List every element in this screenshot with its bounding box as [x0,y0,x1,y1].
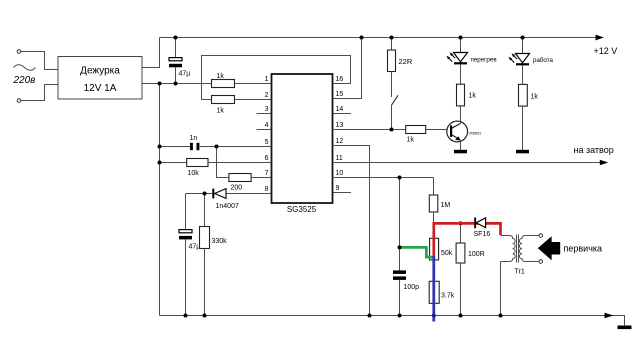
svg-text:220в: 220в [13,75,36,86]
node: 100p ground junction [398,314,402,318]
wire: emitter to ground [460,140,462,150]
svg-text:6: 6 [265,155,269,162]
svg-text:перегрев: перегрев [471,57,498,64]
wire: red node to transformer (black stub) [501,235,510,237]
resistor R 1k (pin 1) [212,80,235,88]
svg-text:200: 200 [231,185,243,192]
svg-text:3: 3 [265,106,269,113]
svg-text:7: 7 [265,170,269,177]
wire: pin 8 line [226,193,272,195]
wire: pin 3 stub [257,113,272,115]
diode D SF16 [474,218,476,229]
wire: primary bottom to ground rail [500,262,502,316]
wire: 1k to pin 2 [235,99,272,101]
transformer Tr1 secondary winding [519,236,538,262]
svg-text:первичка: первичка [564,244,603,254]
svg-text:1n4007: 1n4007 [216,203,239,210]
svg-text:13: 13 [336,122,344,129]
svg-text:15: 15 [336,91,344,98]
svg-text:2: 2 [265,92,269,99]
wire: work LED branch from rail [522,38,524,54]
svg-text:1k: 1k [217,73,225,80]
wire: LED to 1k [460,64,462,84]
wire: pin 13 line [333,129,406,131]
svg-text:330k: 330k [212,238,228,245]
svg-text:100R: 100R [468,251,485,258]
wire: 22R branch from rail [391,38,393,51]
node: 47u bottom junction [174,82,178,86]
terminal circle secondary top [539,234,543,238]
svg-text:8: 8 [265,186,269,193]
wire: pin 15 to +12V rail [333,38,362,99]
resistor R 1k (work LED) [519,84,528,106]
AC terminal top circle [17,50,21,54]
svg-text:10k: 10k [188,170,200,177]
wire: pin 12 down to ground rail [333,146,370,316]
wire: pin 4 stub [257,129,272,131]
svg-text:1k: 1k [217,108,225,115]
svg-text:16: 16 [336,76,344,83]
wire: LED to 1k [522,65,524,84]
PSU block Дежурка 12V 1A [58,57,142,100]
resistor R 1M [433,178,435,196]
resistor R 1k (overheat LED) [457,84,465,106]
IC U1 SG3525 [272,74,333,203]
svg-text:2N5551: 2N5551 [469,132,481,136]
wire: PSU top output up to +12V rail [142,38,160,68]
svg-text:4: 4 [265,122,269,129]
wire: 22R to switch [391,72,393,98]
svg-text:100p: 100p [404,284,420,291]
resistor R 100R [456,243,465,263]
capacitor C 47µ (upper electrolytic) [169,58,182,61]
node: green wiper tap junction [398,245,402,249]
node: pin 13 switch junction [390,128,394,132]
transistor Q1 2N5551 [447,121,468,142]
node: pin 12 ground junction [368,314,372,318]
wire: red wire annotation [434,223,501,257]
svg-text:1k: 1k [407,137,415,144]
svg-text:12V 1A: 12V 1A [84,83,117,94]
wire: blue wire annotation [432,256,435,322]
svg-text:3.7k: 3.7k [441,293,455,300]
svg-text:9: 9 [336,185,340,192]
svg-text:SG3525: SG3525 [287,205,317,214]
wire: bottom AC terminal to PSU box [21,85,58,101]
wire: 47u cap branch from top rail [175,38,177,58]
svg-text:1k: 1k [469,93,477,100]
resistor R 1k (pin 13) [406,126,426,134]
svg-text:работа: работа [533,57,553,64]
svg-text:11: 11 [336,155,343,162]
capacitor C 47µ (lower electrolytic) [179,230,192,233]
node: blue ground junction [432,314,436,318]
node: pin 15 rail junction [360,36,364,40]
svg-text:на затвор: на затвор [574,145,614,155]
wire: pin 10 node down to 100p [399,178,401,271]
capacitor C 100p [393,270,406,274]
node: diode cathode junction [203,192,207,196]
wire: left vertical bus down from PSU output [159,84,161,316]
diode D 1n4007 [215,189,226,199]
svg-text:12: 12 [336,138,344,145]
primary winding arrow (первичка) [538,236,560,260]
wire: pin 2 loop from pin 16 [202,56,351,100]
resistor R 1k (pin 2) [212,96,235,104]
wire: pin 9 stub [333,192,352,194]
node: 47u ground junction [184,314,188,318]
AC terminal bottom circle [17,99,21,103]
node: PSU output junction [158,82,162,86]
resistor R 330k [204,194,206,227]
ground bar bottom right [618,326,632,330]
ground (transistor emitter) [454,150,467,154]
svg-text:5: 5 [265,139,269,146]
node: work LED rail junction [521,36,525,40]
wire: pin 10 line [333,177,434,179]
node: pin 5 bus junction [158,145,162,149]
LED работа [516,54,530,63]
bottom rail arrowhead [605,313,614,319]
svg-text:22R: 22R [399,57,413,66]
wire: switch to pin 13 node [391,105,393,129]
svg-text:47µ: 47µ [189,244,201,251]
wire: pin 5 node down to 200 resistor [217,147,229,178]
transformer Tr1 core [516,235,518,263]
svg-text:1: 1 [265,76,269,83]
svg-text:+12 V: +12 V [594,46,618,56]
svg-text:1M: 1M [441,202,451,209]
transformer Tr1 primary winding [501,236,516,262]
svg-text:14: 14 [336,106,344,113]
node: transformer ground junction [499,314,503,318]
node: pin 5 / 200 junction [215,145,219,149]
capacitor C 1n [190,143,193,150]
node: 22R rail junction [390,36,394,40]
svg-text:47µ: 47µ [179,71,191,78]
gate output arrowhead [600,160,608,166]
terminal circle secondary bottom [539,260,543,264]
node: overheat LED rail junction [459,36,463,40]
wire: down to 47u cap (lower) [185,194,187,230]
ground (work LED) [516,150,529,154]
wire: 100R from red node down [460,225,462,244]
resistor R 3.7k [429,281,439,303]
wire: 1k to pin 1 [235,83,272,85]
wire: pin 6 line [160,162,187,164]
wire: pin 14 stub [333,113,352,115]
node: 47u top rail junction [174,36,178,40]
wire: +12V top rail [160,37,604,39]
svg-text:SF16: SF16 [474,231,491,238]
node: 330k ground junction [203,314,207,318]
svg-text:Tr1: Tr1 [515,269,525,276]
node: 100R ground junction [459,314,463,318]
svg-text:1k: 1k [531,94,539,101]
resistor R 10k [187,159,208,167]
node: pin 10 junction [398,176,402,180]
svg-text:1n: 1n [190,135,198,142]
wire: pin 5 line [160,146,191,148]
AC sine symbol [14,65,36,71]
wire: green wiper wire annotation [400,247,434,257]
wire: pin 11 gate output line [333,162,602,164]
wire: diode cathode to cap branch [186,193,213,195]
wire: PSU bottom output to pin1 resistor [142,83,212,85]
+12V rail arrowhead [596,35,604,41]
wire: bottom ground rail [160,316,625,326]
resistor R 200 [229,174,251,182]
node: 100R tap on red wire [459,221,463,225]
wire: collector up to 1k [460,106,462,124]
svg-text:Дежурка: Дежурка [80,66,120,77]
svg-text:50k: 50k [441,250,453,257]
wire: top AC terminal to PSU box [21,52,58,70]
resistor R 22R [388,50,396,72]
wire: 1k to transistor base [426,129,450,131]
switch blade [392,95,399,105]
potentiometer R 50k [430,238,439,260]
wire: 1k down to ground [522,106,524,150]
LED перегрев [454,53,468,62]
svg-text:10: 10 [336,170,344,177]
wire: overheat LED branch from rail [460,38,462,53]
wire: 200 to pin 7 [251,177,271,179]
node: pin 6 bus junction [158,161,162,165]
